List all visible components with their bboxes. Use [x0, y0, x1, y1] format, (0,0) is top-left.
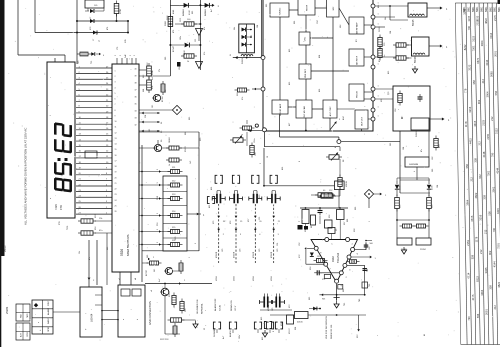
- svg-text:GND CONNECTION: GND CONNECTION: [148, 301, 152, 325]
- svg-text:905: 905: [266, 4, 268, 7]
- svg-text:358: 358: [472, 80, 476, 85]
- svg-text:393: 393: [390, 143, 392, 146]
- svg-text:56005: 56005: [379, 26, 381, 32]
- svg-text:790: 790: [492, 227, 496, 232]
- svg-text:25283: 25283: [185, 146, 187, 152]
- svg-text:FM RF: FM RF: [307, 4, 309, 11]
- svg-text:907: 907: [311, 225, 313, 228]
- svg-text:904: 904: [295, 327, 297, 330]
- svg-text:FM/LW CR 210: FM/LW CR 210: [331, 324, 333, 339]
- svg-text:ALL VOLTAGES AND WAVE FORMS GI: ALL VOLTAGES AND WAVE FORMS GIVEN IN POS…: [24, 128, 28, 225]
- svg-text:104: 104: [257, 25, 259, 28]
- svg-text:BAW62: BAW62: [182, 8, 185, 16]
- svg-text:903: 903: [309, 297, 311, 300]
- svg-text:8: 8: [321, 252, 323, 253]
- svg-text:OSC: OSC: [317, 19, 319, 24]
- svg-text:560: 560: [147, 255, 149, 258]
- svg-text:5881: 5881: [494, 6, 497, 12]
- svg-text:556: 556: [465, 163, 469, 168]
- svg-text:725: 725: [91, 61, 93, 64]
- svg-text:3: 3: [157, 169, 159, 170]
- svg-text:23: 23: [115, 194, 117, 196]
- svg-text:125: 125: [259, 217, 261, 220]
- svg-text:9: 9: [299, 161, 301, 162]
- svg-text:909: 909: [355, 207, 357, 210]
- svg-text:456: 456: [319, 89, 321, 92]
- svg-text:104: 104: [437, 185, 439, 188]
- svg-text:903: 903: [107, 247, 109, 250]
- svg-text:2001: 2001: [485, 309, 489, 315]
- svg-text:GRN2: GRN2: [169, 137, 171, 143]
- svg-text:152: 152: [317, 256, 320, 258]
- svg-text:664: 664: [143, 89, 145, 92]
- svg-text:25284: 25284: [420, 249, 426, 251]
- svg-text:4415: 4415: [496, 208, 500, 214]
- svg-text:902: 902: [488, 250, 492, 255]
- svg-text:45: 45: [424, 334, 426, 336]
- svg-text:56005: 56005: [413, 19, 415, 26]
- svg-text:0675: 0675: [476, 57, 480, 63]
- svg-text:476: 476: [107, 27, 109, 30]
- svg-text:100n: 100n: [180, 36, 182, 40]
- svg-text:26: 26: [115, 211, 117, 213]
- svg-text:AGC: AGC: [342, 115, 345, 120]
- svg-text:39: 39: [135, 76, 137, 78]
- svg-text:4u7: 4u7: [223, 336, 225, 339]
- svg-text:0114: 0114: [489, 32, 493, 38]
- svg-text:2175: 2175: [471, 294, 475, 300]
- svg-text:3904: 3904: [485, 91, 489, 97]
- svg-text:4u7: 4u7: [211, 9, 213, 12]
- svg-text:45508: 45508: [216, 251, 218, 258]
- svg-text:455: 455: [388, 71, 390, 74]
- svg-text:BC547: BC547: [173, 46, 175, 52]
- svg-text:465: 465: [378, 5, 380, 8]
- svg-text:902: 902: [478, 174, 482, 179]
- svg-text:740: 740: [367, 269, 369, 272]
- svg-text:906: 906: [185, 132, 187, 135]
- svg-text:5: 5: [195, 243, 197, 244]
- svg-text:212: 212: [490, 116, 494, 121]
- svg-text:REPEAT AL: REPEAT AL: [201, 302, 204, 314]
- svg-text:4: 4: [115, 87, 116, 89]
- svg-text:4415: 4415: [473, 120, 477, 126]
- svg-text:390: 390: [432, 169, 434, 172]
- svg-text:556: 556: [476, 313, 480, 318]
- svg-text:56k: 56k: [385, 17, 387, 20]
- svg-text:453: 453: [261, 317, 263, 320]
- svg-text:455: 455: [209, 205, 211, 208]
- svg-text:556: 556: [494, 90, 498, 95]
- svg-text:2155: 2155: [475, 15, 479, 21]
- svg-text:IF1: IF1: [379, 59, 381, 62]
- svg-text:358: 358: [473, 158, 477, 163]
- svg-text:3904: 3904: [465, 199, 469, 205]
- svg-text:3904: 3904: [480, 289, 484, 295]
- svg-text:1: 1: [378, 86, 379, 88]
- svg-text:2: 2: [134, 55, 136, 56]
- svg-text:33: 33: [135, 118, 137, 120]
- svg-text:556: 556: [487, 211, 491, 216]
- svg-text:2153: 2153: [466, 240, 470, 246]
- svg-text:4144: 4144: [495, 167, 499, 173]
- svg-text:224: 224: [145, 115, 147, 118]
- svg-text:8222: 8222: [463, 44, 467, 50]
- svg-text:1: 1: [378, 96, 379, 98]
- svg-text:456: 456: [282, 167, 284, 170]
- svg-text:37: 37: [135, 90, 137, 92]
- svg-text:2: 2: [331, 243, 333, 244]
- svg-text:7501: 7501: [497, 243, 500, 249]
- svg-text:1k: 1k: [187, 61, 189, 63]
- svg-text:908: 908: [347, 219, 349, 222]
- svg-text:2: 2: [115, 76, 116, 78]
- svg-text:11: 11: [115, 127, 117, 129]
- svg-text:0114: 0114: [467, 272, 471, 278]
- svg-text:1: 1: [378, 116, 379, 118]
- svg-text:5881: 5881: [463, 6, 466, 12]
- svg-text:7501: 7501: [487, 170, 491, 176]
- svg-text:709: 709: [369, 284, 371, 287]
- svg-text:ALARM: ALARM: [47, 308, 50, 315]
- svg-text:1178: 1178: [475, 236, 479, 242]
- svg-text:470: 470: [173, 30, 175, 33]
- svg-text:a2: a2: [119, 278, 121, 280]
- svg-text:212: 212: [483, 229, 487, 234]
- svg-text:FTD: FTD: [59, 221, 61, 225]
- svg-text:740: 740: [359, 299, 361, 302]
- svg-text:56006: 56006: [415, 56, 417, 63]
- svg-text:4148: 4148: [173, 10, 175, 14]
- svg-text:454: 454: [319, 55, 321, 58]
- svg-text:453: 453: [262, 337, 264, 340]
- svg-text:3216: 3216: [468, 106, 472, 112]
- svg-text:1: 1: [378, 3, 379, 5]
- svg-text:22: 22: [115, 189, 117, 191]
- svg-text:1: 1: [378, 24, 379, 26]
- svg-text:4148: 4148: [482, 151, 486, 157]
- svg-text:170K: 170K: [120, 8, 122, 14]
- svg-text:c6: c6: [151, 290, 153, 292]
- svg-text:5881: 5881: [467, 6, 470, 12]
- svg-text:390: 390: [165, 57, 167, 60]
- svg-text:47k: 47k: [204, 52, 206, 55]
- svg-text:10: 10: [115, 121, 117, 123]
- svg-text:45107: 45107: [289, 328, 291, 334]
- svg-text:5x5 AL: 5x5 AL: [219, 304, 222, 311]
- svg-text:212: 212: [493, 305, 497, 310]
- svg-text:8: 8: [115, 110, 116, 112]
- svg-text:3345: 3345: [484, 267, 488, 273]
- svg-text:5322 218: 5322 218: [160, 339, 169, 341]
- svg-text:6: 6: [115, 99, 116, 101]
- svg-text:3: 3: [157, 182, 159, 183]
- svg-text:AM FM IF: AM FM IF: [356, 55, 359, 65]
- svg-text:2: 2: [260, 163, 262, 164]
- svg-text:47u: 47u: [421, 149, 423, 152]
- svg-text:IF2: IF2: [356, 39, 358, 42]
- svg-text:1: 1: [378, 64, 379, 66]
- svg-text:5: 5: [115, 93, 116, 95]
- svg-text:2153: 2153: [482, 119, 486, 125]
- svg-text:8222: 8222: [475, 276, 479, 282]
- svg-text:BUF OUT: BUF OUT: [362, 116, 364, 126]
- svg-text:212: 212: [481, 79, 485, 84]
- svg-text:102: 102: [149, 129, 151, 132]
- svg-text:2: 2: [130, 55, 132, 56]
- svg-text:3904: 3904: [480, 40, 484, 46]
- svg-text:24: 24: [115, 200, 117, 202]
- svg-text:3216: 3216: [479, 214, 483, 220]
- svg-text:AGC CIRC: AGC CIRC: [329, 106, 332, 116]
- svg-text:TDA1510: TDA1510: [337, 252, 340, 263]
- svg-text:19: 19: [115, 172, 117, 174]
- svg-text:3122: 3122: [468, 64, 472, 70]
- svg-text:8: 8: [273, 331, 275, 332]
- svg-text:575: 575: [322, 279, 325, 281]
- svg-text:7229: 7229: [54, 204, 58, 210]
- svg-text:778: 778: [464, 88, 468, 93]
- svg-text:36: 36: [135, 97, 137, 99]
- svg-text:47u: 47u: [89, 257, 91, 260]
- svg-text:17: 17: [99, 40, 101, 42]
- svg-text:10: 10: [267, 156, 269, 158]
- svg-text:JHXNNM: JHXNNM: [409, 164, 418, 166]
- svg-text:BC327: BC327: [146, 269, 148, 276]
- svg-text:OSC MIX AM: OSC MIX AM: [303, 106, 306, 118]
- svg-text:506: 506: [370, 243, 373, 245]
- svg-text:906: 906: [294, 21, 296, 24]
- svg-text:2001: 2001: [491, 186, 495, 192]
- svg-text:5881: 5881: [472, 6, 475, 12]
- svg-text:905: 905: [189, 117, 191, 120]
- svg-text:1n: 1n: [384, 55, 386, 57]
- svg-text:OSC: OSC: [305, 36, 307, 41]
- svg-text:2175: 2175: [493, 15, 497, 21]
- svg-text:20: 20: [115, 177, 117, 179]
- svg-text:L60-04: L60-04: [90, 313, 94, 322]
- svg-text:2001: 2001: [493, 50, 497, 56]
- svg-text:0: 0: [349, 269, 351, 270]
- svg-text:5881: 5881: [489, 6, 492, 12]
- svg-text:21: 21: [115, 183, 117, 185]
- svg-text:14: 14: [115, 144, 117, 146]
- svg-text:1: 1: [189, 257, 191, 258]
- svg-text:FM LIM: FM LIM: [357, 91, 359, 98]
- svg-text:34: 34: [135, 111, 137, 113]
- svg-text:101: 101: [152, 105, 154, 108]
- svg-text:LW DET AMP: LW DET AMP: [279, 103, 282, 116]
- svg-text:4302: 4302: [331, 256, 335, 262]
- svg-text:STBY: STBY: [48, 300, 50, 306]
- svg-text:18: 18: [115, 166, 117, 168]
- svg-text:47k: 47k: [242, 97, 244, 100]
- svg-text:56007: 56007: [416, 130, 418, 137]
- svg-text:104: 104: [390, 31, 392, 34]
- svg-text:5: 5: [352, 243, 354, 244]
- svg-text:1: 1: [378, 107, 379, 109]
- svg-text:790: 790: [467, 316, 471, 321]
- svg-text:47k: 47k: [204, 27, 206, 30]
- svg-text:3900: 3900: [165, 20, 167, 26]
- svg-text:455: 455: [289, 82, 291, 85]
- svg-text:4822: 4822: [474, 192, 478, 198]
- svg-text:903: 903: [322, 299, 325, 301]
- svg-text:1: 1: [330, 268, 332, 269]
- svg-text:2n2: 2n2: [251, 35, 253, 38]
- svg-text:05010: 05010: [5, 245, 7, 252]
- svg-text:456: 456: [211, 187, 213, 190]
- svg-text:25283: 25283: [169, 291, 171, 297]
- svg-text:5526: 5526: [120, 249, 124, 256]
- svg-text:25: 25: [115, 205, 117, 207]
- svg-text:358: 358: [483, 195, 487, 200]
- svg-text:100n: 100n: [239, 335, 241, 339]
- svg-text:705: 705: [344, 303, 346, 306]
- svg-text:3: 3: [157, 229, 159, 230]
- svg-text:125 V: 125 V: [235, 305, 237, 311]
- svg-text:3: 3: [115, 82, 116, 84]
- svg-text:SLUMBER ON: SLUMBER ON: [197, 299, 199, 314]
- svg-text:3: 3: [346, 277, 348, 278]
- svg-text:1: 1: [369, 221, 371, 222]
- svg-text:5881: 5881: [485, 6, 488, 12]
- svg-text:170: 170: [117, 47, 119, 50]
- svg-text:BC547: BC547: [162, 95, 164, 102]
- svg-text:3122: 3122: [471, 35, 475, 41]
- svg-text:45508: 45508: [253, 251, 255, 258]
- svg-text:7: 7: [115, 104, 116, 106]
- svg-text:MSM 5527B RS: MSM 5527B RS: [126, 234, 130, 256]
- svg-text:35: 35: [135, 104, 137, 106]
- svg-text:5881: 5881: [476, 6, 479, 12]
- svg-text:1: 1: [378, 14, 379, 16]
- svg-text:FTD: FTD: [59, 205, 63, 210]
- svg-text:4: 4: [357, 253, 359, 254]
- svg-text:16: 16: [115, 155, 117, 157]
- svg-text:2212: 2212: [180, 18, 182, 22]
- svg-text:3122: 3122: [495, 128, 499, 134]
- svg-text:OPEN: OPEN: [48, 326, 50, 332]
- svg-text:902: 902: [477, 99, 481, 104]
- svg-text:453: 453: [289, 49, 291, 52]
- svg-text:13: 13: [115, 138, 117, 140]
- svg-text:38: 38: [135, 83, 137, 85]
- svg-text:1: 1: [115, 71, 116, 73]
- svg-text:OPEN: OPEN: [27, 331, 29, 337]
- svg-text:USE FOR FM VERSION: USE FOR FM VERSION: [326, 316, 328, 339]
- svg-text:56k: 56k: [234, 27, 236, 30]
- svg-text:15k: 15k: [79, 251, 81, 254]
- svg-text:5881: 5881: [481, 6, 484, 12]
- svg-text:AM RF AMP: AM RF AMP: [356, 22, 359, 34]
- svg-text:RADIO: RADIO: [47, 317, 50, 324]
- svg-text:358: 358: [489, 285, 493, 290]
- svg-text:45106: 45106: [346, 180, 348, 187]
- svg-text:457: 457: [289, 123, 291, 126]
- svg-text:15: 15: [115, 149, 117, 151]
- svg-text:TUNING: TUNING: [280, 7, 282, 15]
- svg-text:4415: 4415: [469, 138, 473, 144]
- svg-text:1178: 1178: [467, 16, 471, 22]
- svg-text:27k: 27k: [159, 69, 161, 72]
- svg-text:4144: 4144: [493, 261, 497, 267]
- svg-text:PRE DET: PRE DET: [305, 68, 307, 77]
- svg-text:2: 2: [115, 55, 117, 56]
- svg-text:126: 126: [277, 243, 279, 246]
- svg-text:17: 17: [115, 160, 117, 162]
- svg-text:TAPE: TAPE: [26, 313, 29, 318]
- svg-text:0675: 0675: [470, 215, 474, 221]
- svg-text:ALM: ALM: [20, 333, 23, 337]
- svg-text:9: 9: [115, 115, 116, 117]
- svg-text:40106: 40106: [297, 322, 303, 324]
- svg-text:2: 2: [125, 55, 127, 56]
- svg-text:25283: 25283: [5, 306, 9, 314]
- svg-text:620: 620: [381, 99, 383, 102]
- svg-text:104n: 104n: [254, 139, 256, 143]
- svg-text:7501: 7501: [472, 45, 476, 51]
- svg-text:212: 212: [469, 177, 473, 182]
- svg-text:561: 561: [154, 269, 156, 272]
- svg-text:45508: 45508: [271, 251, 273, 258]
- svg-text:32: 32: [135, 125, 137, 127]
- svg-text:DRAIN ON: DRAIN ON: [230, 300, 233, 311]
- svg-text:40: 40: [135, 69, 137, 71]
- svg-text:b4: b4: [135, 278, 137, 280]
- svg-text:45508: 45508: [234, 251, 236, 258]
- svg-text:2: 2: [120, 55, 122, 56]
- svg-text:5665: 5665: [489, 71, 493, 77]
- svg-text:104: 104: [403, 147, 405, 150]
- svg-text:3: 3: [157, 213, 159, 214]
- svg-text:7229: 7229: [67, 226, 69, 230]
- svg-text:212: 212: [479, 249, 483, 254]
- svg-text:2155: 2155: [486, 133, 490, 139]
- svg-text:12: 12: [115, 132, 117, 134]
- svg-text:909: 909: [343, 289, 345, 292]
- svg-text:BAW62: BAW62: [204, 8, 207, 16]
- svg-text:4144: 4144: [485, 59, 489, 65]
- svg-text:3: 3: [157, 242, 159, 243]
- svg-text:358: 358: [471, 254, 475, 259]
- svg-text:1k: 1k: [169, 164, 171, 166]
- svg-text:56001: 56001: [242, 57, 244, 64]
- svg-text:212: 212: [477, 141, 481, 146]
- svg-text:4822: 4822: [484, 18, 488, 24]
- svg-text:790: 790: [491, 152, 495, 157]
- svg-text:122: 122: [195, 39, 197, 42]
- svg-text:903: 903: [192, 11, 194, 14]
- svg-text:ALARM: ALARM: [229, 330, 232, 337]
- svg-text:1178: 1178: [464, 121, 468, 127]
